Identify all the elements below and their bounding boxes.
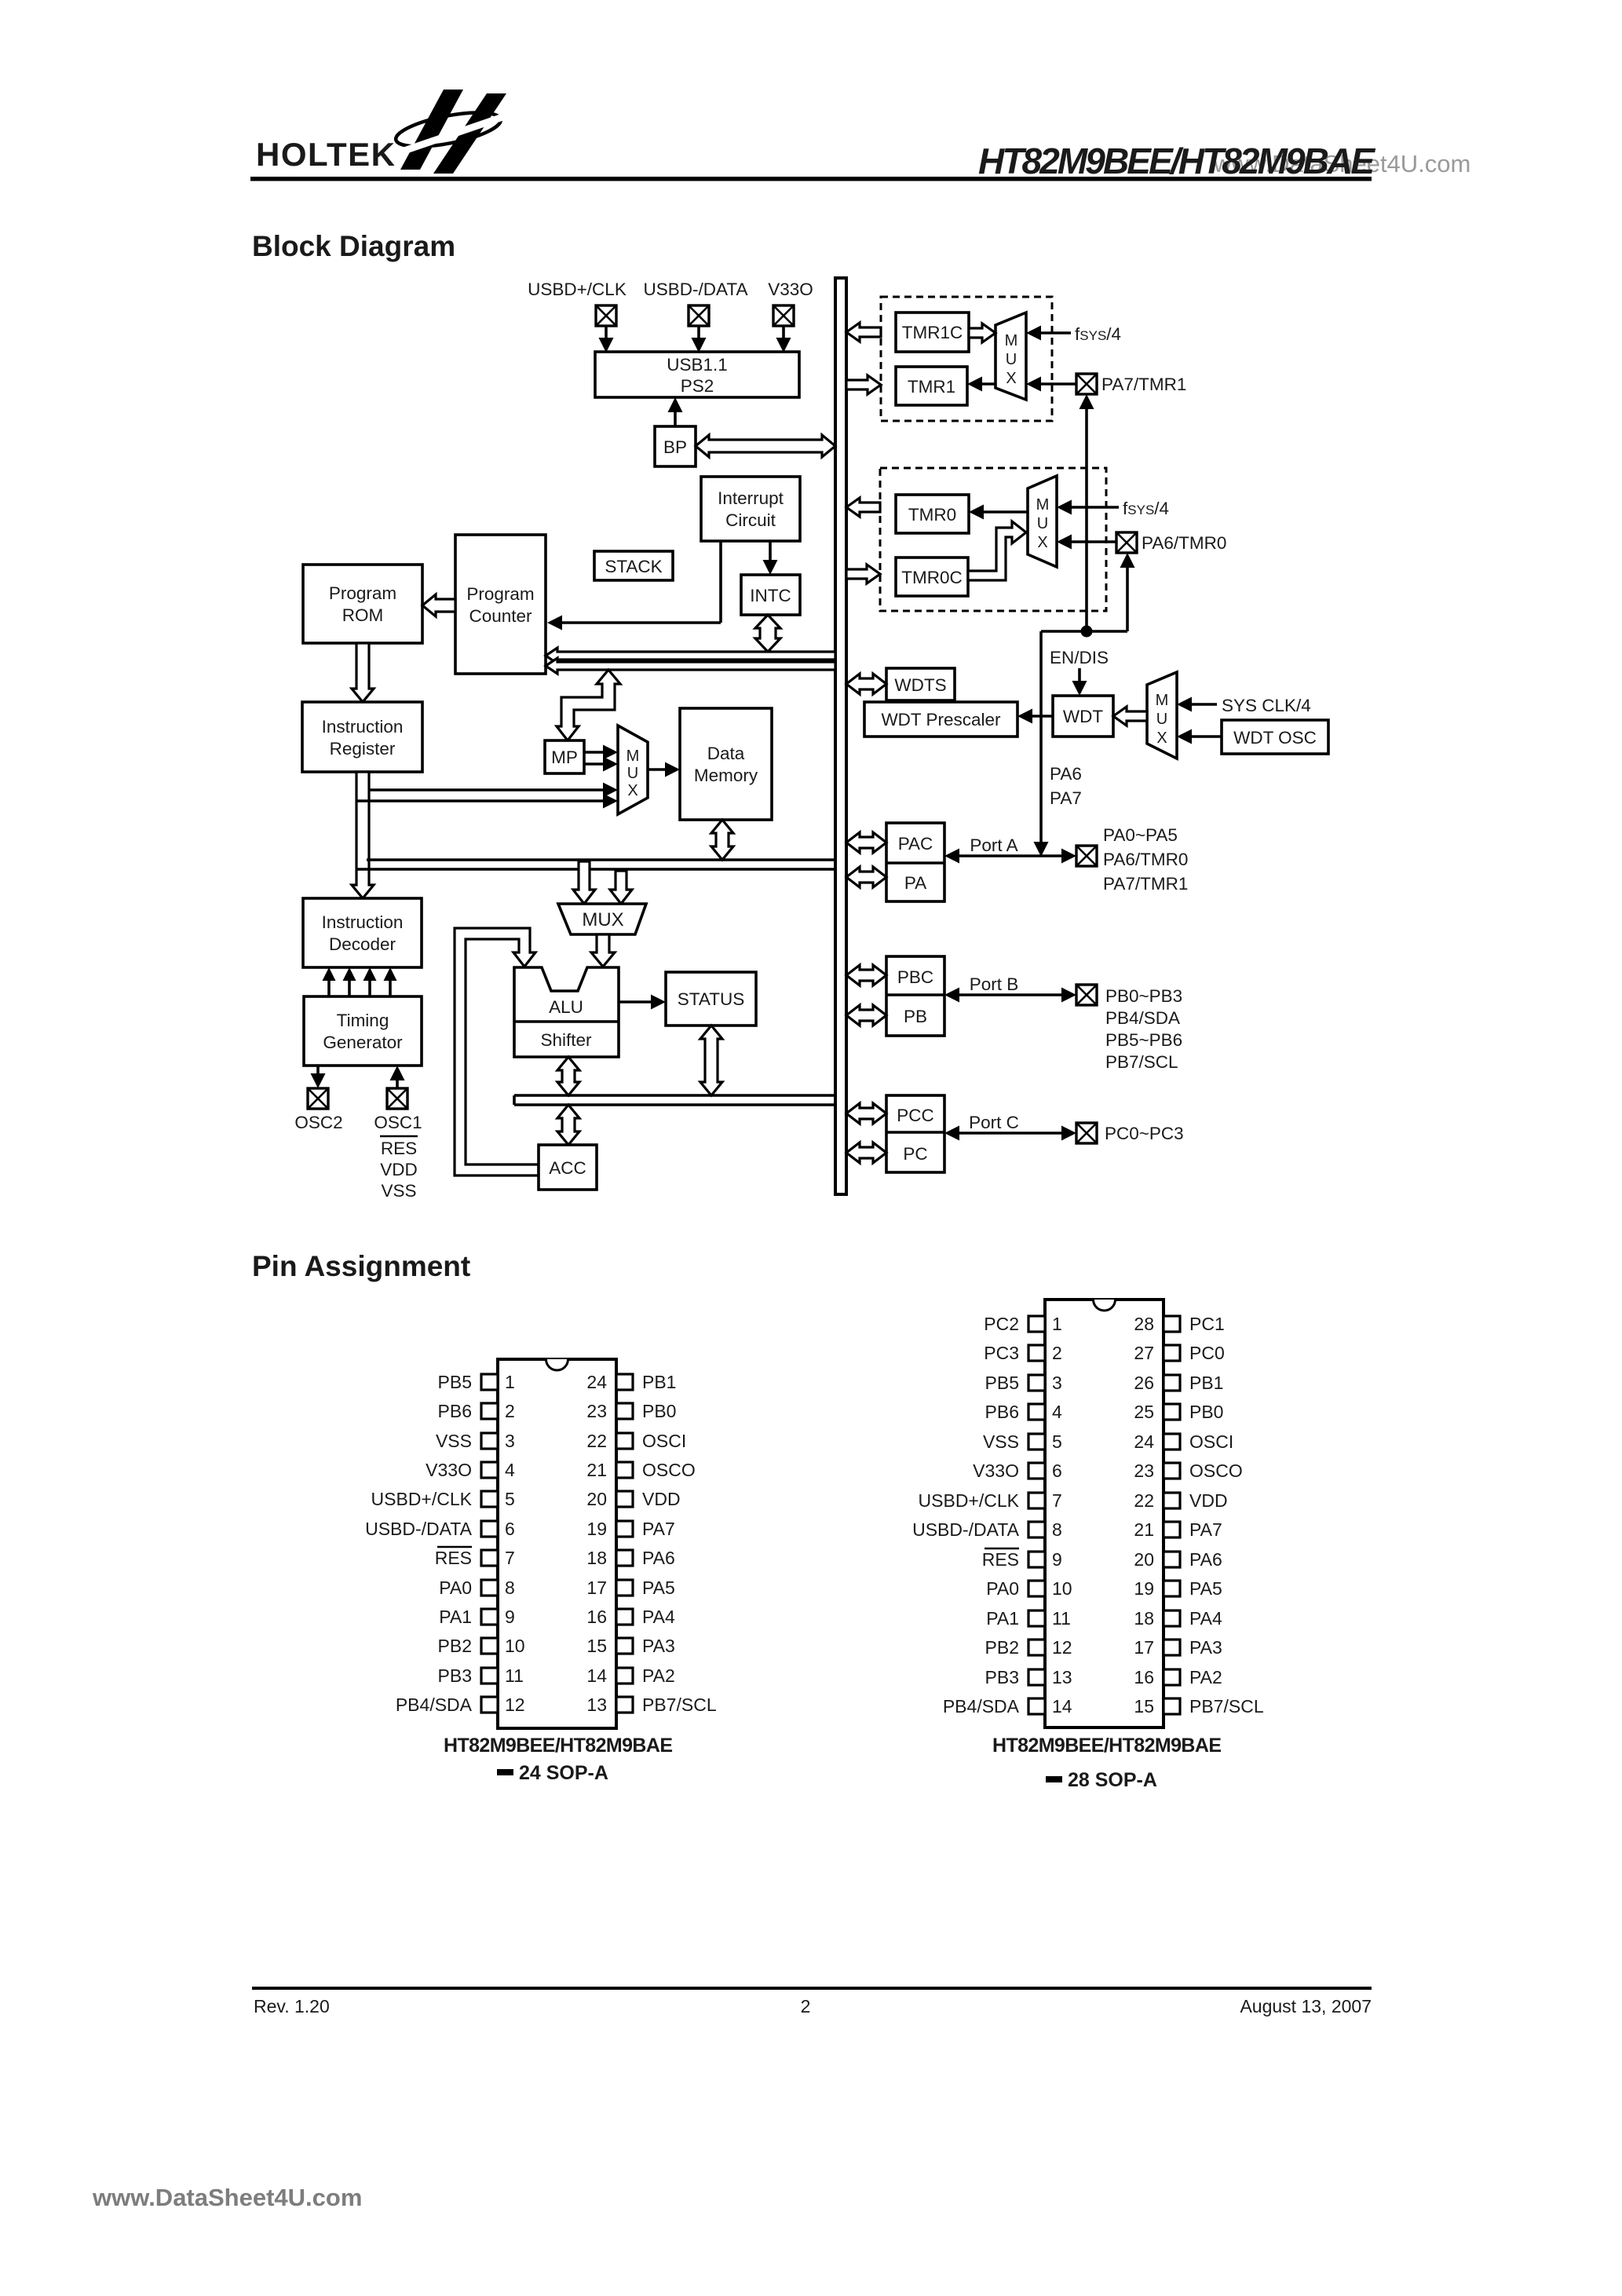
svg-text:BP: BP <box>663 437 687 457</box>
svg-text:PB4/SDA: PB4/SDA <box>396 1695 473 1715</box>
svg-text:Counter: Counter <box>469 606 532 626</box>
svg-text:22: 22 <box>586 1431 607 1451</box>
wire Program Counter to Program ROM <box>422 594 455 616</box>
HOLTEK logo bar 1 <box>400 90 463 170</box>
svg-text:4: 4 <box>1052 1402 1062 1422</box>
svg-text:18: 18 <box>586 1548 607 1568</box>
svg-text:RES: RES <box>435 1548 472 1568</box>
svg-text:23: 23 <box>1134 1461 1154 1481</box>
header rule <box>250 177 1372 181</box>
svg-text:PB1: PB1 <box>642 1372 676 1392</box>
wire TMR0C to MUX <box>968 521 1026 580</box>
svg-text:PA7: PA7 <box>1050 788 1082 808</box>
svg-text:8: 8 <box>505 1578 515 1598</box>
chip 24 SOP-A pin 1 PB5 <box>438 1372 515 1392</box>
svg-text:PA6: PA6 <box>642 1548 675 1568</box>
chip 28 SOP-A pin 25 PB0 <box>1134 1402 1223 1422</box>
svg-text:PA: PA <box>904 873 926 893</box>
svg-text:www.DataSheet4U.com: www.DataSheet4U.com <box>92 2184 362 2211</box>
svg-text:Port B: Port B <box>970 974 1019 994</box>
svg-text:HT82M9BEE/HT82M9BAE: HT82M9BEE/HT82M9BAE <box>978 141 1375 181</box>
chip 24 SOP-A pin 16 PA4 <box>586 1607 675 1627</box>
svg-text:5: 5 <box>505 1489 515 1509</box>
block TMR0C <box>896 558 968 596</box>
svg-text:Memory: Memory <box>694 766 758 785</box>
svg-text:Generator: Generator <box>323 1033 403 1052</box>
wire Port C <box>944 1126 1076 1141</box>
chip 28 SOP-A pin 9 RES <box>982 1548 1062 1570</box>
chip 24 SOP-A pin 20 VDD <box>586 1489 680 1509</box>
block ACC <box>539 1145 597 1190</box>
block ALU Shifter <box>514 967 619 1057</box>
svg-text:Program: Program <box>329 583 396 603</box>
svg-text:Instruction: Instruction <box>322 912 404 932</box>
svg-text:Decoder: Decoder <box>329 934 396 954</box>
mux MP data memory <box>618 726 648 814</box>
chip 24 SOP-A pin 15 PA3 <box>586 1636 674 1656</box>
svg-text:PB6: PB6 <box>438 1401 472 1421</box>
svg-text:USBD+/CLK: USBD+/CLK <box>919 1490 1020 1511</box>
wire MUX to TMR1 <box>967 377 995 392</box>
chip 28 SOP-A pin 2 PC3 <box>984 1343 1062 1363</box>
wire Interrupt Circuit to Program Counter <box>547 541 721 631</box>
chip 24 SOP-A pin 24 PB1 <box>586 1372 676 1392</box>
wire PA6 pad to MUX timer0 <box>1057 535 1116 550</box>
svg-text:WDT OSC: WDT OSC <box>1233 728 1317 748</box>
chip 24 SOP-A pin 18 PA6 <box>586 1548 674 1568</box>
pad Port B <box>1076 985 1097 1005</box>
svg-text:U: U <box>1037 515 1048 532</box>
svg-text:5: 5 <box>1052 1431 1062 1452</box>
svg-text:PA1: PA1 <box>986 1608 1019 1629</box>
svg-text:U: U <box>1006 351 1017 368</box>
svg-text:13: 13 <box>1052 1667 1072 1687</box>
svg-text:3: 3 <box>1052 1373 1062 1393</box>
block PAC PA <box>886 823 944 901</box>
svg-text:X: X <box>1037 534 1047 551</box>
svg-text:TMR1: TMR1 <box>908 377 955 397</box>
block INTC <box>741 575 800 615</box>
chip 24 SOP-A pin 7 RES <box>435 1547 515 1568</box>
svg-text:MUX: MUX <box>582 909 623 930</box>
pad OSC1 <box>387 1088 407 1109</box>
block WDT Prescaler <box>864 702 1017 737</box>
svg-text:PB7/SCL: PB7/SCL <box>642 1695 717 1715</box>
chip 28 SOP-A pin 3 PB5 <box>985 1373 1062 1393</box>
pad OSC2 <box>308 1088 328 1109</box>
bus wire TMR1C to bus <box>846 323 881 342</box>
wire MUX to TMR0 <box>969 505 1028 520</box>
block BP <box>655 426 696 466</box>
svg-text:X: X <box>627 782 637 799</box>
svg-text:PB3: PB3 <box>438 1665 472 1686</box>
svg-text:2: 2 <box>801 1996 811 2016</box>
bus wire bus to TMR0C <box>846 565 880 583</box>
bus wire PA to bus <box>846 867 886 887</box>
chip 28 SOP-A pin 23 OSCO <box>1134 1461 1242 1481</box>
svg-text:V33O: V33O <box>973 1461 1019 1481</box>
svg-text:14: 14 <box>1052 1696 1072 1717</box>
chip 28 SOP-A pin 20 PA6 <box>1134 1549 1222 1570</box>
wire TMR1C to MUX <box>969 324 995 342</box>
HOLTEK logo white slash <box>393 113 514 155</box>
svg-text:28: 28 <box>1134 1314 1154 1334</box>
chip 24 SOP-A pin 5 USBD+/CLK <box>371 1489 515 1509</box>
svg-text:STACK: STACK <box>605 557 662 576</box>
bus wire PC to bus <box>846 1143 886 1163</box>
svg-text:INTC: INTC <box>750 586 791 605</box>
chip 24 SOP-A pin 21 OSCO <box>586 1460 695 1480</box>
svg-text:PB0~PB3: PB0~PB3 <box>1105 986 1182 1006</box>
svg-text:1: 1 <box>505 1372 515 1392</box>
svg-text:PC0: PC0 <box>1189 1343 1225 1363</box>
wire Data Memory to bus wire <box>711 820 733 860</box>
bus wire WDTS to bus <box>846 674 886 694</box>
mux timer 0 <box>1028 476 1057 567</box>
svg-text:X: X <box>1006 370 1016 387</box>
svg-text:PA0~PA5: PA0~PA5 <box>1103 825 1178 845</box>
chip 28 SOP-A pin 1 PC2 <box>984 1314 1062 1334</box>
chip 24 SOP-A pin 17 PA5 <box>586 1578 674 1598</box>
svg-text:24 SOP-A: 24 SOP-A <box>519 1762 608 1784</box>
svg-text:PB4/SDA: PB4/SDA <box>943 1696 1020 1717</box>
svg-text:PB7/SCL: PB7/SCL <box>1189 1696 1264 1717</box>
dashed box timer 0 <box>880 468 1106 611</box>
bus wire TMR0 to bus <box>846 498 880 517</box>
svg-text:27: 27 <box>1134 1343 1154 1363</box>
svg-text:10: 10 <box>505 1636 525 1656</box>
wire EN/DIS to WDT <box>1072 668 1087 696</box>
svg-text:15: 15 <box>586 1636 607 1656</box>
block PBC PB <box>886 956 944 1036</box>
svg-text:PA6/TMR0: PA6/TMR0 <box>1142 533 1226 553</box>
svg-text:HT82M9BEE/HT82M9BAE: HT82M9BEE/HT82M9BAE <box>444 1735 673 1757</box>
svg-text:VSS: VSS <box>436 1431 472 1451</box>
wire USBD-/DATA to USB block <box>692 326 707 353</box>
svg-text:STATUS: STATUS <box>678 989 744 1009</box>
svg-text:20: 20 <box>586 1489 607 1509</box>
chip 24 SOP-A pin 22 OSCI <box>586 1431 686 1451</box>
svg-text:TMR0: TMR0 <box>908 505 956 525</box>
chip 24 SOP-A pin 3 VSS <box>436 1431 515 1451</box>
svg-text:OSC1: OSC1 <box>374 1113 422 1132</box>
HOLTEK logo bar 2 <box>433 93 506 174</box>
chip 24 SOP-A pin 19 PA7 <box>586 1519 674 1539</box>
chip 28 SOP-A pin 7 USBD+/CLK <box>919 1490 1062 1511</box>
svg-text:VDD: VDD <box>1189 1490 1228 1511</box>
svg-text:PB5: PB5 <box>438 1372 472 1392</box>
svg-text:PB6: PB6 <box>985 1402 1019 1422</box>
svg-text:PC1: PC1 <box>1189 1314 1225 1334</box>
svg-text:Rev. 1.20: Rev. 1.20 <box>254 1996 330 2016</box>
svg-text:6: 6 <box>505 1519 515 1539</box>
svg-text:25: 25 <box>1134 1402 1154 1422</box>
chip 24 SOP-A package label <box>497 1762 608 1784</box>
chip 28 SOP-A pin 14 PB4/SDA <box>943 1696 1072 1717</box>
svg-text:TMR0C: TMR0C <box>901 568 963 587</box>
svg-text:21: 21 <box>586 1460 607 1480</box>
chip 28 SOP-A pin 18 PA4 <box>1134 1608 1222 1629</box>
mux ALU input <box>558 904 646 934</box>
svg-text:PS2: PS2 <box>681 376 714 396</box>
svg-text:15: 15 <box>1134 1696 1154 1717</box>
chip 24 SOP-A pin 11 PB3 <box>438 1665 524 1686</box>
accumulator bus <box>514 1095 835 1105</box>
bus wire program counter upper <box>546 648 835 664</box>
wire PA7 net horizontal <box>1041 630 1127 633</box>
svg-text:2: 2 <box>505 1401 515 1421</box>
svg-text:14: 14 <box>586 1665 607 1686</box>
wire fSYS/4 to MUX timer1 <box>1026 326 1071 341</box>
svg-text:11: 11 <box>1052 1608 1071 1629</box>
svg-text:22: 22 <box>1134 1490 1154 1511</box>
wire BP to USB block <box>668 397 683 426</box>
wire Timing Generator to OSC2 pad <box>311 1066 326 1088</box>
chip 24 SOP-A pin 2 PB6 <box>438 1401 515 1421</box>
wire MUX to ALU <box>591 934 615 967</box>
svg-text:28 SOP-A: 28 SOP-A <box>1068 1769 1157 1791</box>
svg-text:Timing: Timing <box>337 1011 389 1030</box>
chip 28 SOP-A pin 17 PA3 <box>1134 1637 1222 1658</box>
wire Port B <box>944 988 1076 1003</box>
block TMR1 <box>896 367 967 405</box>
svg-text:11: 11 <box>505 1665 524 1686</box>
bus wire BP to bus <box>696 435 835 457</box>
svg-text:ACC: ACC <box>549 1158 586 1178</box>
chip 28 SOP-A pin 19 PA5 <box>1134 1578 1222 1599</box>
wire OSC1 pad to Timing Generator <box>390 1066 405 1088</box>
bus wire PBC to bus <box>846 965 886 985</box>
svg-text:PA3: PA3 <box>1189 1637 1222 1658</box>
svg-text:PB3: PB3 <box>985 1667 1019 1687</box>
wire PA7 net vertical <box>1080 394 1094 631</box>
svg-text:23: 23 <box>586 1401 607 1421</box>
wire STATUS to accumulator bus <box>700 1026 722 1095</box>
chip 28 SOP-A pin 24 OSCI <box>1134 1431 1233 1452</box>
mux timer 1 <box>995 313 1026 400</box>
wire bus to MUX branch 2 <box>610 871 632 904</box>
svg-text:PA4: PA4 <box>1189 1608 1222 1629</box>
svg-text:PB0: PB0 <box>642 1401 676 1421</box>
wires Timing Generator to Instruction Decoder <box>323 967 397 996</box>
bus wire INTC to bus <box>755 615 780 652</box>
svg-text:19: 19 <box>1134 1578 1154 1599</box>
wire Port A <box>944 849 1076 864</box>
bus wire program counter lower <box>546 658 835 674</box>
chip 28 SOP-A pin 27 PC0 <box>1134 1343 1224 1363</box>
dashed box timer 1 <box>881 297 1052 421</box>
svg-text:12: 12 <box>505 1695 525 1715</box>
svg-text:13: 13 <box>586 1695 607 1715</box>
svg-text:Pin Assignment: Pin Assignment <box>252 1250 470 1282</box>
svg-text:PC0~PC3: PC0~PC3 <box>1105 1124 1184 1143</box>
block STACK <box>594 551 673 580</box>
svg-text:M: M <box>1156 692 1169 709</box>
main vertical bus <box>834 278 848 1194</box>
svg-text:USB1.1: USB1.1 <box>667 355 728 375</box>
svg-text:Interrupt: Interrupt <box>718 488 784 508</box>
pad Port A <box>1076 846 1097 866</box>
block TMR1C <box>896 313 969 352</box>
svg-text:Program: Program <box>466 584 534 604</box>
svg-text:19: 19 <box>586 1519 607 1539</box>
svg-text:20: 20 <box>1134 1549 1154 1570</box>
wire SYS CLK/4 to MUX <box>1177 697 1217 712</box>
svg-text:VDD: VDD <box>642 1489 681 1509</box>
svg-text:PC3: PC3 <box>984 1343 1019 1363</box>
svg-text:VSS: VSS <box>983 1431 1019 1452</box>
svg-text:PB2: PB2 <box>438 1636 472 1656</box>
svg-text:M: M <box>627 748 640 765</box>
svg-text:USBD-/DATA: USBD-/DATA <box>365 1519 473 1539</box>
svg-text:Circuit: Circuit <box>725 510 776 530</box>
svg-text:6: 6 <box>1052 1461 1062 1481</box>
chip 28 SOP-A pin 5 VSS <box>983 1431 1062 1452</box>
svg-text:PA7/TMR1: PA7/TMR1 <box>1101 375 1186 394</box>
svg-text:M: M <box>1036 496 1050 514</box>
svg-text:MP: MP <box>551 748 578 767</box>
svg-text:V33O: V33O <box>426 1460 472 1480</box>
svg-text:PB5: PB5 <box>985 1373 1019 1393</box>
svg-text:16: 16 <box>586 1607 607 1627</box>
svg-text:USBD-/DATA: USBD-/DATA <box>644 280 748 299</box>
pad Port C <box>1076 1123 1097 1143</box>
chip 24 SOP-A pin 13 PB7/SCL <box>586 1695 716 1715</box>
svg-text:PB7/SCL: PB7/SCL <box>1105 1052 1178 1072</box>
wire ACC feedback loop to ALU <box>455 928 539 1175</box>
pad V33O <box>773 305 794 326</box>
svg-text:PC2: PC2 <box>984 1314 1019 1334</box>
svg-text:PC: PC <box>903 1144 927 1164</box>
wire MUX to WDT <box>1113 707 1147 726</box>
pad PA7/TMR1 <box>1076 374 1097 394</box>
wire WDT to WDT Prescaler <box>1017 709 1053 724</box>
svg-text:PAC: PAC <box>898 834 933 854</box>
chip 28 SOP-A pin 21 PA7 <box>1134 1519 1222 1540</box>
block Program Counter <box>455 535 546 674</box>
chip 24 SOP-A pin 9 PA1 <box>439 1607 515 1627</box>
wire V33O to USB block <box>776 326 791 353</box>
svg-text:M: M <box>1005 332 1018 349</box>
bus wire bus to TMR1 <box>846 375 881 394</box>
chip 28 SOP-A pin 22 VDD <box>1134 1490 1227 1511</box>
svg-text:ROM: ROM <box>342 605 384 625</box>
svg-text:24: 24 <box>1134 1431 1154 1452</box>
svg-text:U: U <box>1156 711 1167 728</box>
svg-text:10: 10 <box>1052 1578 1072 1599</box>
wire MP to program counter bus <box>557 670 620 740</box>
wire Shifter to accumulator bus <box>557 1057 579 1095</box>
pad USBD-/DATA <box>689 305 709 326</box>
chip 28 SOP-A package label <box>1046 1769 1157 1791</box>
chip 24 SOP-A pin 6 USBD-/DATA <box>365 1519 515 1539</box>
svg-text:PA7/TMR1: PA7/TMR1 <box>1103 874 1188 894</box>
svg-text:OSCO: OSCO <box>1189 1461 1243 1481</box>
svg-text:USBD+/CLK: USBD+/CLK <box>371 1489 473 1509</box>
HOLTEK logo ellipse <box>393 106 503 153</box>
chip 28 SOP-A pin 6 V33O <box>973 1461 1062 1481</box>
svg-text:OSCI: OSCI <box>642 1431 686 1451</box>
svg-text:August 13, 2007: August 13, 2007 <box>1240 1996 1372 2016</box>
svg-text:HT82M9BEE/HT82M9BAE: HT82M9BEE/HT82M9BAE <box>992 1735 1222 1757</box>
chip 24 SOP-A pin 14 PA2 <box>586 1665 674 1686</box>
svg-text:PA2: PA2 <box>642 1665 675 1686</box>
svg-text:3: 3 <box>505 1431 515 1451</box>
svg-text:WDTS: WDTS <box>894 675 946 695</box>
bus wire MUX upper <box>357 860 835 869</box>
wires MP to MUX <box>584 745 618 772</box>
wire fSYS/4 to MUX timer0 <box>1057 500 1119 515</box>
pad PA6/TMR0 <box>1116 532 1137 553</box>
svg-text:VSS: VSS <box>381 1181 416 1201</box>
svg-text:7: 7 <box>505 1548 515 1568</box>
svg-text:V33O: V33O <box>768 280 813 299</box>
chip 28 SOP-A pin 13 PB3 <box>985 1667 1072 1687</box>
svg-text:RES: RES <box>381 1139 417 1158</box>
svg-text:16: 16 <box>1134 1667 1154 1687</box>
block WDTS <box>886 668 955 700</box>
chip 28 SOP-A pin 10 PA0 <box>986 1578 1072 1599</box>
block PCC PC <box>886 1095 944 1172</box>
block Interrupt Circuit <box>701 477 800 541</box>
svg-text:Shifter: Shifter <box>540 1030 592 1050</box>
chip 24 SOP-A pin 12 PB4/SDA <box>396 1695 525 1715</box>
svg-text:SYS CLK/4: SYS CLK/4 <box>1222 696 1311 715</box>
svg-text:PA0: PA0 <box>986 1578 1019 1599</box>
chip 24 SOP-A pin 23 PB0 <box>586 1401 676 1421</box>
block Instruction Register <box>302 702 422 772</box>
wire Program ROM to Instruction Register <box>352 643 374 702</box>
wire ALU to STATUS <box>619 995 666 1010</box>
svg-text:7: 7 <box>1052 1490 1062 1511</box>
footer rule <box>252 1987 1372 1990</box>
wire WDT OSC to MUX <box>1177 729 1222 744</box>
svg-text:OSC2: OSC2 <box>294 1113 342 1132</box>
svg-text:PB2: PB2 <box>985 1637 1019 1658</box>
mux WDT <box>1147 672 1177 759</box>
chip 24 SOP-A pin 4 V33O <box>426 1460 515 1480</box>
wire MUX to Data Memory <box>648 762 680 777</box>
svg-text:PB1: PB1 <box>1189 1373 1223 1393</box>
svg-text:Instruction: Instruction <box>322 717 404 737</box>
svg-text:EN/DIS: EN/DIS <box>1050 648 1109 667</box>
chip 28 SOP-A pin 15 PB7/SCL <box>1134 1696 1263 1717</box>
chip 28 SOP-A pin 8 USBD-/DATA <box>912 1519 1062 1540</box>
svg-text:PB: PB <box>904 1007 927 1026</box>
svg-text:PB4/SDA: PB4/SDA <box>1105 1008 1180 1028</box>
svg-text:9: 9 <box>505 1607 515 1627</box>
wires Instruction Register to MUX <box>357 783 618 809</box>
svg-text:PBC: PBC <box>897 967 933 987</box>
svg-text:17: 17 <box>586 1578 607 1598</box>
svg-text:PA4: PA4 <box>642 1607 675 1627</box>
svg-text:24: 24 <box>586 1372 607 1392</box>
svg-text:8: 8 <box>1052 1519 1062 1540</box>
svg-text:PA6: PA6 <box>1050 764 1082 784</box>
block WDT <box>1053 696 1113 737</box>
block WDT OSC <box>1222 720 1328 754</box>
bus wire PCC to bus <box>846 1103 886 1124</box>
svg-text:PA5: PA5 <box>1189 1578 1222 1599</box>
wire Instruction Register to Instruction Decoder <box>352 772 374 898</box>
svg-text:Register: Register <box>330 739 396 759</box>
chip 24 SOP-A pin 8 PA0 <box>439 1578 515 1598</box>
svg-text:WDT Prescaler: WDT Prescaler <box>881 710 1001 729</box>
svg-text:TMR1C: TMR1C <box>902 323 963 342</box>
svg-text:VDD: VDD <box>380 1160 418 1179</box>
svg-text:Block Diagram: Block Diagram <box>252 230 455 262</box>
block Data Memory <box>680 708 772 820</box>
